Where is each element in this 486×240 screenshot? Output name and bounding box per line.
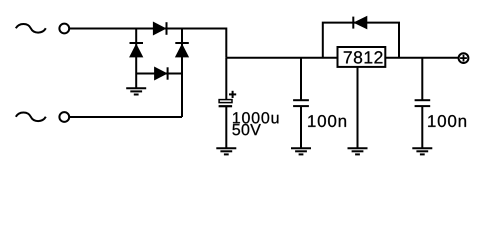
wire (bridge right arm vertical) xyxy=(181,29,183,118)
value label 100n (C3) xyxy=(428,115,466,127)
capacitor C2 bottom plate xyxy=(293,105,309,107)
wire (bridge left arm vertical) xyxy=(135,29,137,74)
voltage label 50V xyxy=(232,124,260,135)
terminal (bottom AC input) xyxy=(59,112,69,122)
terminal (DC output, circled plus) xyxy=(459,53,469,63)
diode D3 (bottom, GND to AC2) xyxy=(155,67,168,79)
ground (regulator) xyxy=(348,148,368,154)
ground (under C1) xyxy=(216,148,236,154)
diode D4 (right arm, AC2 to DC+) xyxy=(175,43,189,57)
AC source symbol (bottom input, neutral) xyxy=(16,113,46,122)
diode D1 (top, AC1 to DC+) xyxy=(153,22,166,35)
ground (under C3) xyxy=(412,148,432,154)
wire (DC+ rail) xyxy=(226,57,458,59)
capacitor C3 100n: lead from rail xyxy=(421,58,423,100)
ground (under C2) xyxy=(291,148,311,154)
capacitor C1 plus sign xyxy=(229,91,236,98)
wire (bridge bottom node to right arm) xyxy=(136,73,182,75)
capacitor C3 top plate xyxy=(415,99,431,101)
capacitor C1 positive plate (hollow) xyxy=(219,100,232,103)
wire (protection diode loop over regulator) xyxy=(323,23,399,58)
AC source symbol (top input, phase) xyxy=(16,24,46,33)
capacitor C1 1000u/50V electrolytic: lead from rail xyxy=(225,58,227,100)
wire (top AC rail from terminal to corner, down to DC+ rail) xyxy=(69,29,226,58)
capacitor C1 negative plate xyxy=(219,105,233,107)
wire (regulator ground pin) xyxy=(357,67,359,148)
wire (bottom AC rail to bridge right arm) xyxy=(69,116,182,118)
diode D2 (left arm, GND to AC1) xyxy=(130,43,144,57)
regulator U1 label 7812 xyxy=(344,51,383,63)
wire (C1 to ground) xyxy=(225,106,227,148)
wire (C3 to ground) xyxy=(421,106,423,148)
capacitor C2 100n: lead from rail xyxy=(300,58,302,100)
terminal (top AC input) xyxy=(59,24,69,34)
wire (C2 to ground) xyxy=(300,106,302,148)
value label 1000u xyxy=(233,112,278,123)
value label 100n (C2) xyxy=(308,115,346,127)
diode D5 (protection, output to input, pointing left) xyxy=(353,17,367,29)
regulator U1 7812 body xyxy=(338,47,386,67)
capacitor C2 top plate xyxy=(293,99,309,101)
ground (bridge negative node) xyxy=(126,74,146,95)
capacitor C3 bottom plate xyxy=(415,105,431,107)
